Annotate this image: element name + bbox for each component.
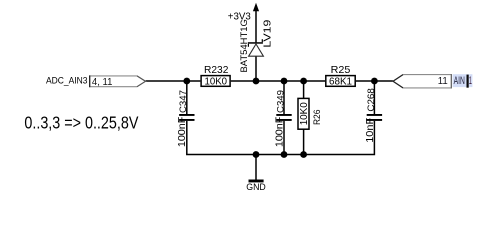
svg-text:1: 1 xyxy=(469,75,472,87)
svg-text:C268: C268 xyxy=(366,88,377,112)
anode triangle xyxy=(249,44,264,56)
svg-text:10nF: 10nF xyxy=(365,118,376,143)
port ADC_AIN3 (left flag) xyxy=(90,75,146,87)
svg-text:R25: R25 xyxy=(331,65,351,76)
svg-text:BAT54HT1G: BAT54HT1G xyxy=(239,19,250,72)
selection highlight for net name being edited xyxy=(453,74,473,87)
svg-text:100nF: 100nF xyxy=(177,117,188,148)
junction: main net at C349 xyxy=(281,78,288,85)
junction: main net at diode xyxy=(253,78,260,85)
junction: rail at R26 xyxy=(300,151,307,158)
svg-text:68K1: 68K1 xyxy=(329,77,352,88)
wire: C268 top branch xyxy=(373,81,375,114)
svg-text:10K0: 10K0 xyxy=(205,77,228,88)
svg-text:100nF: 100nF xyxy=(274,117,285,148)
junction: rail at GND stub xyxy=(253,151,260,158)
resistor R26 (vertical) xyxy=(298,98,309,129)
wire: C347 top branch xyxy=(186,81,188,114)
svg-text:R232: R232 xyxy=(204,65,229,76)
capacitor C268 xyxy=(367,114,382,121)
wire: segment R25 to right port xyxy=(356,80,393,82)
resistor R232 xyxy=(201,76,230,87)
wire: C349 branches xyxy=(283,81,285,155)
junction: main net at C268 xyxy=(371,78,378,85)
resistor R25 xyxy=(326,76,355,87)
ground symbol GND xyxy=(249,155,264,183)
junction: main net at R26 xyxy=(300,78,307,85)
text cursor xyxy=(467,75,469,88)
wire: segment R232 to R25 xyxy=(231,80,325,82)
svg-text:AIN: AIN xyxy=(454,75,465,87)
power symbol +3V3 arrow xyxy=(253,3,259,11)
wire: diode anode to main net xyxy=(255,56,257,81)
svg-text:4, 11: 4, 11 xyxy=(92,77,113,88)
diode LV19 BAT54HT1G (schottky clamp) xyxy=(248,39,264,56)
svg-text:C349: C349 xyxy=(275,90,286,113)
cathode bar with schottky hooks xyxy=(248,42,263,44)
svg-text:0..3,3 => 0..25,8V: 0..3,3 => 0..25,8V xyxy=(24,113,138,133)
wire: +3V3 supply line xyxy=(255,10,257,42)
svg-text:C347: C347 xyxy=(178,90,189,113)
wire: main net segment from left port to R232 xyxy=(146,80,201,82)
capacitor C349 xyxy=(276,114,291,121)
svg-text:11: 11 xyxy=(438,76,448,87)
svg-text:LV19: LV19 xyxy=(262,19,273,47)
svg-text:R26: R26 xyxy=(311,110,322,126)
svg-text:ADC_AIN3: ADC_AIN3 xyxy=(46,75,88,85)
port AIN1 (right flag) xyxy=(393,74,451,88)
wire: bottom ground rail xyxy=(187,121,375,155)
junction: rail at C349 xyxy=(281,151,288,158)
capacitor C347 xyxy=(179,114,194,121)
junction: main net at C347 xyxy=(183,78,190,85)
wire: R26 branches xyxy=(303,81,305,155)
svg-text:10K0: 10K0 xyxy=(299,102,310,125)
svg-text:GND: GND xyxy=(246,182,266,192)
